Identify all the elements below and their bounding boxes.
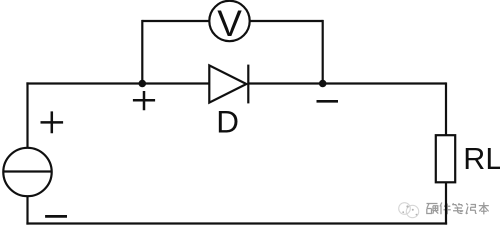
wire bottom horizontal: [26, 222, 447, 224]
resistor RL: [436, 135, 455, 182]
wire left vertical upper: [26, 82, 28, 147]
char jian (piece): [440, 203, 451, 215]
watermark: [399, 202, 489, 217]
char ben (root): [479, 202, 489, 214]
wire left drop to node A: [141, 20, 143, 84]
wire right vertical lower: [445, 182, 447, 224]
char bi (pen): [453, 203, 464, 213]
wire left vertical lower: [26, 196, 28, 224]
svg-text:V: V: [217, 3, 242, 44]
svg-text:RL: RL: [463, 142, 500, 176]
wire top-left horizontal: [142, 20, 209, 22]
char ying (hard): [427, 204, 439, 214]
wire main horizontal left of diode: [26, 82, 209, 84]
node A junction dot: [139, 80, 147, 88]
polarity + at source: [41, 111, 64, 133]
current source I1: [3, 148, 51, 196]
char ji (record): [466, 203, 477, 214]
voltmeter V: [209, 1, 249, 41]
svg-text:D: D: [216, 104, 239, 140]
diode D: [209, 65, 246, 102]
wire right vertical upper: [445, 82, 447, 135]
node B junction dot: [319, 80, 327, 88]
wire main horizontal right of diode: [248, 82, 446, 84]
wire top-right horizontal: [250, 20, 323, 22]
polarity - at source: [45, 215, 67, 218]
polarity - at node B: [317, 100, 339, 103]
wire right drop to node B: [322, 20, 324, 84]
polarity + at node A: [133, 91, 155, 110]
